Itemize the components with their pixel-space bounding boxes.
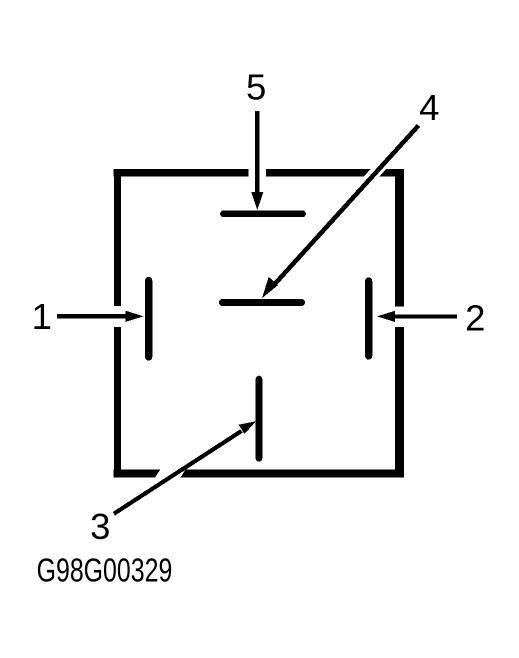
relay case outline (square box) — [114, 169, 405, 478]
svg-text:3: 3 — [90, 506, 110, 547]
pin label 4 — [419, 87, 439, 128]
svg-text:4: 4 — [419, 87, 439, 128]
pin label 3 — [90, 506, 110, 547]
figure number G98G00329 — [37, 551, 173, 588]
svg-text:G98G00329: G98G00329 — [37, 551, 173, 588]
gap in top wall for pin-5 leader — [249, 166, 267, 179]
pin label 1 — [32, 296, 52, 337]
pin label 2 — [465, 298, 485, 339]
leader arrow for pin 5 (vertical, pointing down at terminal 5) — [251, 111, 263, 210]
svg-text:2: 2 — [465, 298, 485, 339]
terminal 2 blade (vertical bar, right) — [365, 281, 372, 356]
svg-text:1: 1 — [32, 296, 52, 337]
terminal 4 blade (horizontal bar, center) — [223, 299, 302, 306]
leader arrow for pin 3 (diagonal, pointing up-right at terminal 3) — [114, 421, 256, 514]
gap in right wall for pin-2 leader — [392, 307, 407, 328]
leader arrow for pin 4 (diagonal, pointing down-left at terminal 4) — [262, 126, 419, 299]
gap in bottom wall for pin-3 leader (slanted cut) — [158, 462, 178, 492]
pin label 5 — [246, 66, 266, 107]
gap in left wall for pin-1 leader — [111, 306, 124, 327]
svg-text:5: 5 — [246, 66, 266, 107]
leader arrow for pin 2 (horizontal, pointing left at terminal 2) — [377, 311, 457, 322]
gap in top wall for pin-4 leader (slanted cut) — [353, 148, 398, 198]
terminal 5 blade (horizontal bar, top center) — [224, 210, 303, 217]
terminal 3 blade (vertical bar, bottom center) — [256, 379, 263, 459]
terminal 1 blade (vertical bar, left) — [145, 281, 152, 358]
leader arrow for pin 1 (horizontal, pointing right at terminal 1) — [57, 311, 144, 322]
